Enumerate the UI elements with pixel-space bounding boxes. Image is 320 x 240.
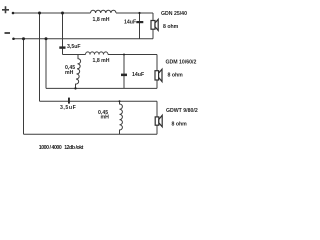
svg-text:1,8 mH: 1,8 mH [93,58,110,64]
svg-text:3,5uF: 3,5uF [67,44,81,50]
svg-text:14uF: 14uF [124,20,136,26]
svg-text:mH: mH [101,115,110,121]
svg-text:GDM 10/60/2: GDM 10/60/2 [166,60,197,66]
svg-text:1,8 mH: 1,8 mH [93,17,110,23]
svg-text:1000 / 4000 12db /okt: 1000 / 4000 12db /okt [39,145,84,151]
svg-text:8 ohm: 8 ohm [172,122,188,128]
svg-text:3,5uF: 3,5uF [60,105,76,111]
svg-text:8 ohm: 8 ohm [163,24,179,30]
svg-text:mH: mH [65,70,74,76]
svg-text:14uF: 14uF [132,72,144,78]
svg-text:8 ohm: 8 ohm [168,73,184,79]
svg-text:GDN 25/40: GDN 25/40 [161,11,187,17]
svg-text:GDWT 9/80/2: GDWT 9/80/2 [166,108,198,114]
